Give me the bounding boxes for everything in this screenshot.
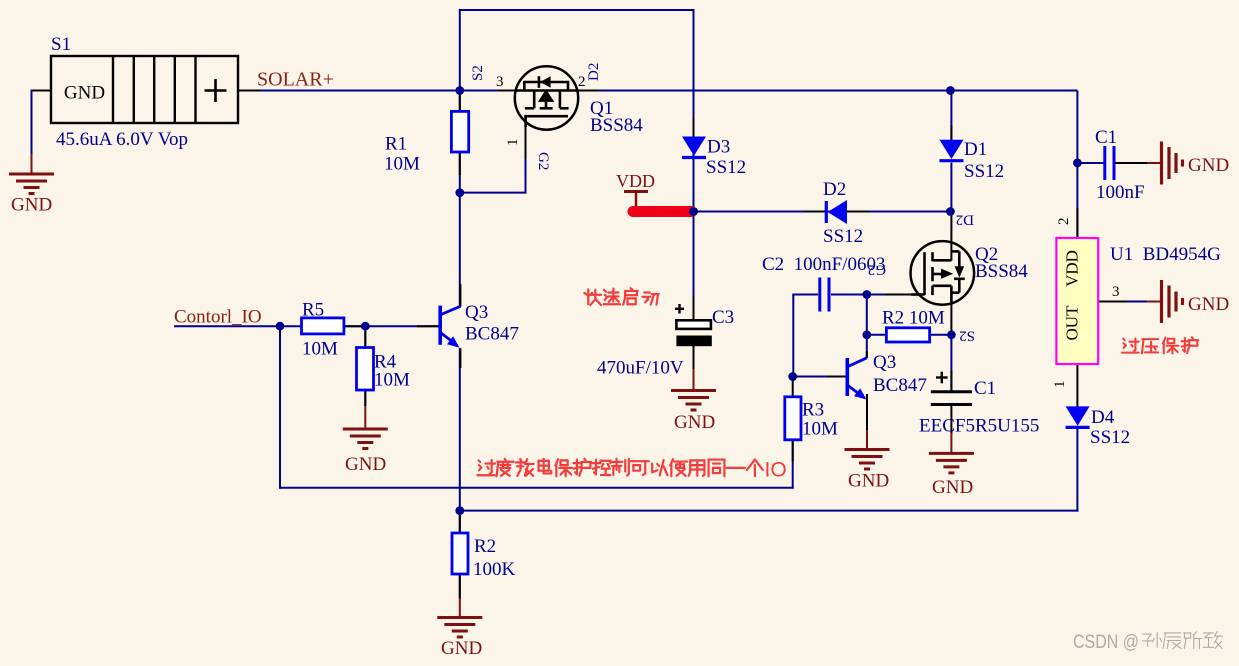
wire Q2 gate stub: [885, 294, 912, 296]
svg-text:3: 3: [1112, 284, 1120, 300]
node Q2 source: [947, 330, 956, 339]
power VDD: [624, 192, 648, 208]
svg-text:D3: D3: [707, 137, 730, 158]
wire to R2 100K: [459, 511, 461, 598]
resistor R4: [357, 348, 374, 391]
svg-text:GND: GND: [1188, 155, 1229, 176]
svg-text:VDD: VDD: [1063, 250, 1082, 287]
svg-text:D4: D4: [1091, 407, 1115, 428]
node C2 / gate: [862, 290, 871, 299]
wire Q1 source stub: [498, 90, 515, 92]
wire S1 to GND vertical: [31, 90, 33, 156]
node D1 / D2 / Q2 drain: [946, 207, 955, 216]
svg-text:GND: GND: [1188, 294, 1229, 315]
svg-text:C2 100nF/0603: C2 100nF/0603: [762, 254, 886, 275]
svg-text:OUT: OUT: [1063, 305, 1082, 341]
svg-text:R5: R5: [302, 300, 324, 321]
wire gate net horizontal: [460, 192, 527, 194]
wire Q3 collector stub: [459, 284, 461, 307]
wire Q3 emitter to GND: [866, 430, 868, 450]
svg-text:3: 3: [496, 74, 504, 90]
wire base net Q3 right: [793, 376, 846, 378]
svg-text:S2: S2: [470, 65, 486, 81]
ground Q3 right: [845, 450, 890, 470]
svg-text:D2: D2: [956, 212, 974, 228]
wire C1 right lead: [1115, 162, 1149, 164]
diode D1: [939, 140, 963, 161]
svg-text:Q3: Q3: [873, 352, 896, 373]
svg-text:10M: 10M: [384, 154, 420, 175]
svg-text:SOLAR+: SOLAR+: [257, 69, 334, 91]
ground U1 pin3: [1162, 280, 1183, 323]
wire R3 top stub: [792, 378, 794, 398]
wire to Q3 collector right: [866, 335, 868, 358]
node R3 / base: [788, 372, 797, 381]
node SOLAR+ / R1: [455, 86, 464, 95]
svg-text:GND: GND: [345, 454, 386, 475]
wire C3 top stub: [693, 296, 695, 321]
wire Q3 emitter stub: [866, 394, 868, 431]
ground R2: [437, 618, 482, 638]
wire D1 bottom lead: [950, 163, 952, 213]
capacitor C1 supercap: [931, 372, 972, 405]
wire C1s bottom stub: [950, 405, 952, 434]
resistor R2 10M: [886, 328, 929, 342]
wire Q3 emitter down: [459, 348, 461, 512]
wire right vertical to U1: [1076, 91, 1078, 240]
svg-text:D2: D2: [823, 179, 846, 200]
wire D2 left stub: [805, 211, 826, 213]
svg-text:G2: G2: [535, 152, 551, 170]
transistor Q1 BSS84: [515, 66, 578, 129]
wire D3 top stub: [693, 118, 695, 136]
transistor Q2 BSS84: [911, 241, 975, 305]
svg-text:CSDN @: CSDN @: [1073, 631, 1139, 653]
wire C2 left elbow: [792, 295, 794, 378]
svg-text:100K: 100K: [473, 559, 516, 580]
wire R3 bottom stub: [792, 440, 794, 461]
wire top loop horizontal: [459, 9, 695, 11]
wire pin3 net: [1127, 301, 1148, 303]
svg-text:GND: GND: [932, 477, 973, 498]
wire R4 to GND: [364, 405, 366, 430]
node Contorl_IO: [276, 322, 285, 331]
wire D4 to bottom rail: [1076, 429, 1078, 512]
wire C1s top stub: [950, 371, 952, 391]
wire C2 right to Q2 gate: [831, 294, 912, 296]
wire VDD highlighted segment: [633, 206, 691, 217]
wire S1 left stub: [31, 90, 52, 92]
wire R4 branch: [364, 326, 366, 406]
text annotation 快速启动: [584, 288, 658, 305]
node VDD: [689, 207, 698, 216]
svg-text:C3: C3: [712, 307, 734, 328]
wire C2 left lead: [792, 294, 818, 296]
svg-text:R2 10M: R2 10M: [882, 308, 945, 329]
svg-text:GND: GND: [848, 471, 889, 492]
wire R2 bottom stub: [459, 574, 461, 599]
op-amp U1 BD4954G: [1056, 238, 1098, 364]
wire Q3 emitter stub: [459, 349, 461, 369]
svg-text:45.6uA 6.0V Vop: 45.6uA 6.0V Vop: [56, 129, 188, 150]
wire Q2 source stub: [950, 286, 952, 335]
wire C1 to GND: [1147, 162, 1161, 164]
node R1 / gate: [455, 188, 464, 197]
node R5 / R4: [361, 322, 370, 331]
node VDD redraw: [689, 207, 698, 216]
wire pin3 to GND: [1147, 301, 1161, 303]
wire GND colored segment: [31, 154, 33, 175]
svg-text:GND: GND: [674, 412, 715, 433]
svg-text:10M: 10M: [302, 339, 338, 360]
svg-text:SS12: SS12: [823, 226, 863, 247]
wire up to R3 bottom: [792, 440, 794, 489]
node rail / D1: [946, 86, 955, 95]
svg-text:S1: S1: [51, 34, 71, 55]
wire gate node down: [866, 295, 868, 336]
wire VDD to D2 net: [694, 211, 951, 213]
ground R4: [343, 429, 388, 449]
svg-text:SS12: SS12: [964, 161, 1004, 182]
resistor R1: [451, 111, 468, 152]
svg-text:1: 1: [1052, 381, 1068, 389]
svg-text:C1: C1: [974, 378, 996, 399]
wire Q3r base stub: [827, 376, 846, 378]
capacitor C3 470uF: [675, 304, 712, 346]
svg-text:SS12: SS12: [1090, 427, 1130, 448]
svg-text:VDD: VDD: [616, 171, 655, 191]
svg-text:470uF/10V: 470uF/10V: [597, 358, 684, 379]
svg-text:R3: R3: [802, 400, 824, 421]
wire to Q3 collector: [459, 193, 461, 307]
wire C3 to GND: [693, 369, 695, 391]
transistor Q3 BC847 (left): [440, 306, 460, 348]
wire IO bottom horizontal: [279, 487, 794, 489]
svg-text:D2: D2: [586, 63, 602, 81]
resistor R2 100K: [452, 533, 468, 574]
ground C1 supercap: [929, 453, 974, 473]
text watermark name: [1142, 631, 1222, 649]
wire Contorl_IO net: [174, 325, 439, 327]
svg-text:1: 1: [505, 139, 521, 147]
svg-text:Contorl_IO: Contorl_IO: [174, 307, 262, 328]
wire R1 top stub: [459, 92, 461, 111]
wire C3 bottom stub: [693, 345, 695, 370]
wire R1 branch: [459, 91, 461, 194]
svg-text:2: 2: [578, 74, 586, 90]
wire Q3r collector stub: [866, 351, 868, 358]
wire D1 top stub: [950, 125, 952, 140]
svg-text:EECF5R5U155: EECF5R5U155: [919, 416, 1039, 437]
wire U1 pin1 to D4: [1076, 364, 1078, 407]
capacitor C1 100nF: [1105, 146, 1114, 180]
transistor Q3 BC847 (right): [847, 358, 867, 400]
wire R5 right stub: [344, 325, 366, 327]
wire R4 bottom stub: [364, 390, 366, 406]
wire VDD node to C3: [693, 212, 695, 322]
svg-text:BC847: BC847: [465, 324, 519, 345]
svg-text:S2: S2: [959, 328, 975, 344]
svg-text:BSS84: BSS84: [590, 115, 643, 136]
svg-text:2: 2: [1056, 218, 1072, 226]
wire Q3 base stub: [417, 325, 439, 327]
wire R2 to GND: [459, 598, 461, 618]
svg-text:C1: C1: [1095, 127, 1117, 148]
svg-text:Q3: Q3: [465, 302, 488, 323]
svg-text:R2: R2: [474, 536, 496, 557]
wire Q2 drain stub: [950, 212, 952, 261]
wire C1s to GND: [950, 433, 952, 454]
wire U1 pin2 stub: [1076, 208, 1078, 239]
wire R4 top stub: [364, 331, 366, 348]
svg-text:100nF: 100nF: [1096, 182, 1145, 203]
svg-text:GND: GND: [441, 638, 482, 659]
svg-text:SS12: SS12: [706, 157, 746, 178]
node R2 left: [862, 330, 871, 339]
wire D2 right stub: [846, 211, 870, 213]
wire bottom long rail: [460, 510, 1079, 512]
node C1 branch: [1073, 159, 1082, 168]
wire Q1 gate stub: [525, 126, 527, 159]
svg-text:10M: 10M: [374, 370, 410, 391]
ground C3: [671, 391, 716, 411]
diode D4: [1066, 406, 1090, 427]
wire top loop down through D3: [693, 10, 695, 213]
wire D1 top lead: [950, 91, 952, 141]
svg-text:GND: GND: [64, 83, 105, 104]
resistor R3: [785, 397, 801, 440]
wire to R2 left: [867, 334, 887, 336]
wire U1 pin3 stub: [1098, 301, 1128, 303]
wire gate net vertical: [525, 126, 527, 194]
diode D2: [826, 200, 847, 224]
svg-text:D1: D1: [964, 139, 987, 160]
svg-text:R1: R1: [385, 134, 407, 155]
svg-text:BC847: BC847: [873, 375, 927, 396]
text annotation 过度放电保护控制可以使用同一个: [477, 459, 762, 476]
ground C1 100nF: [1162, 142, 1183, 185]
wire Q1 drain stub: [578, 90, 599, 92]
wire IO branch down: [279, 326, 281, 489]
resistor R5: [302, 318, 344, 334]
node bottom rail: [455, 506, 464, 515]
wire R2 top stub: [459, 512, 461, 533]
wire R1 bottom stub: [459, 152, 461, 175]
diode D3: [682, 137, 706, 158]
wire C1 left lead: [1077, 162, 1104, 164]
svg-text:10M: 10M: [802, 419, 838, 440]
solar cell S1: [51, 56, 238, 123]
wire node to C1 supercap: [950, 335, 952, 391]
wire top loop left: [459, 10, 461, 92]
wire S1 pin stub: [239, 90, 260, 92]
svg-text:IO: IO: [765, 459, 787, 482]
wire SOLAR+ rail: [238, 90, 1077, 92]
ground S1: [9, 174, 54, 194]
svg-text:U1 BD4954G: U1 BD4954G: [1110, 244, 1221, 265]
svg-text:BSS84: BSS84: [975, 261, 1028, 282]
text annotation 过压保护: [1122, 337, 1198, 353]
svg-text:GND: GND: [11, 195, 52, 216]
capacitor C2: [820, 278, 829, 312]
wire R2 right to node: [930, 334, 952, 336]
